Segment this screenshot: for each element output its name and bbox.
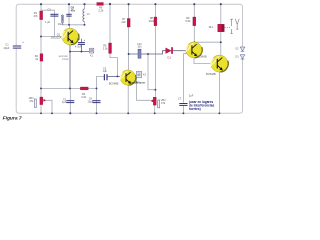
svg-text:10n: 10n	[137, 46, 142, 49]
wire R5 feed x=110	[109, 4, 111, 43]
svg-text:4.7µF: 4.7µF	[75, 45, 82, 49]
svg-text:47k: 47k	[161, 101, 166, 105]
wire Q1 collector	[68, 25, 70, 29]
wire ground loop bottom/right rails	[16, 48, 242, 113]
svg-text:C7: C7	[178, 96, 182, 100]
label C10	[137, 43, 142, 49]
svg-text:BC548B: BC548B	[197, 55, 207, 59]
wire relay to Q5 collector	[220, 32, 222, 56]
wire VR1 wiper to ground	[46, 100, 52, 113]
resistor R6 on rail	[97, 3, 104, 6]
label K1 note	[59, 55, 69, 61]
svg-text:BC548B: BC548B	[109, 82, 119, 86]
diode D2	[240, 47, 245, 51]
svg-text:10µF: 10µF	[3, 46, 9, 50]
svg-text:1 µF: 1 µF	[45, 20, 51, 24]
connector K3	[136, 72, 141, 78]
wire VR1 leads	[40, 88, 42, 113]
label VR1	[29, 96, 35, 103]
resistor R2	[40, 54, 43, 61]
wire trimmer stub	[61, 14, 63, 25]
label R6	[98, 6, 104, 13]
wire C4 leads	[81, 39, 83, 52]
svg-text:2.2k: 2.2k	[98, 9, 104, 13]
wire emitter node to K1	[70, 51, 89, 53]
node dots internal	[40, 24, 222, 91]
svg-text:330k: 330k	[149, 19, 155, 23]
trimmer capacitor CV1	[61, 15, 63, 22]
wire R5 to Q3 base node	[110, 54, 117, 77]
wire Q1 base y=36.5	[41, 36, 62, 38]
wire Q4 emitter to Q5 base	[194, 58, 211, 64]
label R9	[186, 16, 192, 23]
svg-text:RL1: RL1	[209, 26, 214, 29]
wire audio bus y=88.4	[41, 87, 97, 89]
label R2	[35, 54, 39, 61]
note text block blue bold	[189, 100, 215, 111]
wire VR2 bottom lead	[154, 105, 156, 113]
label C3	[62, 97, 67, 104]
svg-text:2N2222A: 2N2222A	[51, 36, 62, 40]
wire C9 branch x=69	[68, 4, 70, 25]
label Q1	[51, 33, 62, 40]
svg-text:C4: C4	[77, 37, 81, 41]
transistor Q4	[186, 42, 202, 58]
label C9 bold	[71, 5, 76, 12]
trimpot VR2	[150, 97, 159, 108]
capacitor C9	[66, 14, 71, 17]
svg-text:2µF: 2µF	[189, 94, 194, 98]
wire C3 branch down	[69, 88, 71, 113]
wire R9 feed x=194.3	[193, 4, 195, 42]
svg-text:5.6k: 5.6k	[186, 19, 192, 23]
capacitor C4	[78, 39, 86, 45]
wire Q3 base y=76.4	[107, 75, 120, 77]
svg-text:BC548B: BC548B	[206, 72, 216, 76]
svg-text:22k: 22k	[122, 20, 127, 24]
wire R1-R2 bias chain x=41	[40, 4, 42, 88]
wire supply loop top/left rails	[16, 4, 242, 47]
label R5	[103, 43, 109, 50]
trimpot VR1	[34, 97, 46, 108]
node dots top rail	[40, 3, 222, 5]
svg-text:47k: 47k	[29, 99, 34, 103]
filter C10 series element	[138, 49, 141, 58]
svg-text:1µF: 1µF	[62, 100, 67, 104]
resistor R7	[127, 19, 130, 28]
resistor R4 horizontal	[80, 87, 88, 90]
wire C6 branch down	[96, 88, 98, 113]
svg-text:Figura 7: Figura 7	[3, 115, 22, 121]
wire L1 leads	[84, 4, 86, 25]
relay RL1 contacts	[225, 19, 240, 34]
svg-text:cristal: cristal	[62, 58, 69, 61]
capacitor C7	[179, 103, 187, 106]
svg-text:10µF: 10µF	[87, 99, 93, 103]
wire R8 line x=155.4	[154, 4, 156, 97]
transistor Q3	[120, 70, 136, 85]
wire C2 branch	[41, 10, 54, 36]
label VR2	[161, 98, 167, 105]
svg-text:3.3k: 3.3k	[81, 95, 87, 99]
resistor R5	[109, 43, 112, 53]
wire collector link to relay line y=42.2	[194, 41, 221, 43]
svg-text:AudMicro: AudMicro	[130, 81, 145, 85]
wire Q3 emitter down	[127, 85, 129, 113]
wire Q5 emitter to ground	[218, 72, 220, 113]
relay RL1 coil	[218, 24, 224, 31]
wire R7 line x=128.6	[128, 4, 130, 70]
inductor L1	[83, 9, 85, 22]
node dots ground rail	[40, 112, 220, 114]
svg-text:47k: 47k	[34, 14, 39, 18]
svg-text:2.2k: 2.2k	[103, 46, 109, 50]
label R1	[34, 11, 39, 18]
diode D3	[240, 55, 245, 59]
svg-text:C2: C2	[48, 7, 52, 11]
wire D1 to Q4 base	[173, 50, 186, 52]
label C4	[75, 37, 82, 49]
capacitor C3	[66, 100, 74, 103]
label C5	[103, 66, 108, 73]
transistor Q5	[211, 55, 228, 72]
label R7	[122, 17, 127, 24]
capacitor C2	[50, 14, 58, 17]
wire K3 to VR2 wiper	[137, 78, 151, 101]
wire tank row y=24.8	[62, 24, 84, 26]
label R8	[149, 16, 155, 23]
svg-text:1µF: 1µF	[103, 69, 108, 73]
capacitor C5 series	[104, 74, 108, 80]
label C1	[3, 43, 9, 50]
wire C7 branch	[183, 51, 186, 114]
label C6	[87, 96, 93, 103]
label R4	[81, 92, 87, 99]
svg-text:10µF: 10µF	[58, 23, 64, 26]
svg-text:47n: 47n	[71, 8, 76, 12]
wire detector row y=54	[129, 51, 166, 54]
resistor R8	[154, 17, 157, 26]
transistor Q1	[62, 28, 79, 45]
svg-text:fuertes): fuertes)	[189, 107, 201, 111]
label C2	[45, 7, 51, 24]
wire Q1 emitter down	[69, 45, 71, 52]
resistor R9	[193, 17, 196, 26]
wire C5 riser	[97, 76, 105, 88]
label C7	[178, 94, 194, 101]
capacitor C1	[13, 41, 24, 49]
connector K1 earphone	[89, 48, 93, 53]
capacitor C6	[93, 100, 101, 103]
wire emitter chain down to audio bus	[69, 52, 71, 89]
svg-text:D1: D1	[168, 55, 172, 59]
resistor R1	[40, 11, 43, 20]
diode D1	[166, 47, 173, 53]
wire relay feed x=220.8	[220, 4, 222, 24]
wire branch down to VR2 top	[148, 54, 155, 90]
